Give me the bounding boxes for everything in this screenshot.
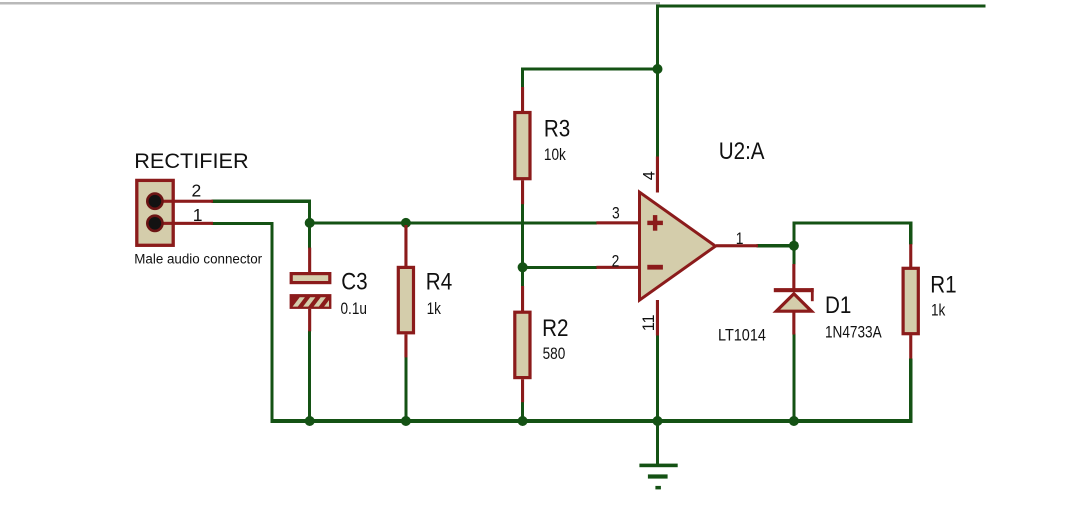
- svg-text:2: 2: [612, 253, 620, 271]
- wire top border net: [656, 4, 986, 7]
- junction top wire at pin4 column: [653, 64, 663, 74]
- resistor R4: [398, 225, 413, 357]
- junction output node at D1: [789, 241, 799, 251]
- wire connector pin2 vertical drop: [308, 200, 311, 225]
- svg-text:LT1014: LT1014: [718, 326, 766, 344]
- junction rail C3: [305, 416, 315, 426]
- wire ground stub: [656, 419, 659, 464]
- wire C3 top branch: [308, 221, 311, 248]
- wire R3 top vertical drop: [521, 68, 524, 90]
- svg-text:U2:A: U2:A: [719, 138, 765, 165]
- wire D1 bottom branch: [792, 334, 795, 423]
- wire op-amp output to node D1: [757, 244, 796, 247]
- svg-text:580: 580: [543, 344, 566, 363]
- svg-text:4: 4: [640, 171, 658, 180]
- junction rail R2: [518, 416, 528, 426]
- wire ground rail: [270, 419, 912, 423]
- svg-text:10k: 10k: [544, 146, 566, 165]
- svg-text:1: 1: [736, 230, 744, 248]
- svg-text:1: 1: [193, 205, 203, 225]
- wire R1 top branch: [909, 221, 912, 244]
- connector J1 RECTIFIER: [137, 180, 213, 245]
- svg-text:R4: R4: [426, 268, 452, 295]
- junction R4 top: [401, 218, 411, 228]
- wire R4 bottom branch: [404, 357, 407, 423]
- wire D1 node vertical: [792, 221, 795, 264]
- wire connector pin1 horizontal: [212, 222, 274, 225]
- svg-text:R3: R3: [544, 115, 570, 142]
- wire connector pin2 horizontal: [212, 200, 312, 203]
- wire vertical from top to R3 top-wire junction: [656, 4, 659, 70]
- junction node A (bus left): [305, 218, 315, 228]
- junction rail R4: [401, 416, 411, 426]
- svg-text:R2: R2: [542, 315, 568, 342]
- svg-text:11: 11: [640, 314, 658, 331]
- wire R2 bottom branch: [521, 401, 524, 423]
- resistor R1: [903, 244, 918, 359]
- zener diode D1: [774, 264, 814, 335]
- svg-text:1k: 1k: [931, 301, 946, 320]
- resistor R3: [515, 87, 530, 204]
- wire C3 bottom branch: [308, 331, 311, 423]
- wire R3 top horizontal: [521, 68, 659, 71]
- svg-text:1k: 1k: [427, 300, 442, 319]
- wire connector pin1 vertical drop to ground rail: [270, 222, 273, 423]
- svg-text:3: 3: [612, 204, 620, 222]
- svg-text:C3: C3: [341, 268, 367, 295]
- op-amp U2:A: [596, 157, 758, 336]
- junction rail ground: [653, 416, 663, 426]
- svg-text:Male audio connector: Male audio connector: [134, 251, 262, 266]
- svg-text:0.1u: 0.1u: [341, 300, 367, 319]
- wire output top horizontal to R1: [792, 221, 912, 224]
- wire main bus node A to op-amp pin3: [308, 221, 597, 224]
- wire op-amp pin4 vertical: [656, 69, 659, 158]
- svg-text:RECTIFIER: RECTIFIER: [134, 148, 248, 173]
- svg-text:2: 2: [192, 180, 202, 200]
- ground: [639, 464, 677, 490]
- wire op-amp pin11 vertical to ground rail: [656, 335, 659, 423]
- svg-text:1N4733A: 1N4733A: [825, 323, 882, 342]
- wire R3-R2 vertical link through bus: [521, 204, 524, 287]
- svg-text:D1: D1: [825, 291, 851, 318]
- wire R1 bottom branch: [909, 359, 912, 423]
- resistor R2: [515, 286, 530, 402]
- wire op-amp pin2 horizontal: [521, 266, 597, 269]
- capacitor C3: [290, 248, 337, 332]
- junction rail D1: [789, 416, 799, 426]
- svg-text:R1: R1: [930, 271, 956, 298]
- junction R3/R2 at op-amp pin2: [518, 262, 528, 272]
